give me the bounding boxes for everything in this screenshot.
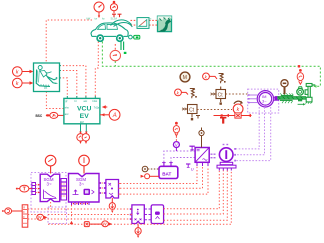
wire: slope to road stubs bbox=[149, 19, 158, 21]
blockA left port tabs bbox=[130, 208, 132, 220]
VCU EV block bbox=[64, 96, 100, 124]
gauge below car (wheel speed) bbox=[110, 50, 120, 60]
machine shaft flange purple bbox=[275, 96, 278, 100]
svg-text:VCU: VCU bbox=[77, 106, 91, 113]
wire: red dashed stubs car roof to slope block bbox=[131, 19, 138, 21]
svg-text:3~: 3~ bbox=[262, 98, 267, 103]
machine shaft stub bbox=[274, 97, 279, 100]
svg-text:SLSA: SLSA bbox=[111, 17, 118, 21]
blockA (transform) bbox=[132, 205, 144, 224]
stub pins between A and B bbox=[144, 209, 151, 220]
twin EM displays below VCU bbox=[81, 124, 87, 132]
dashed purple frame lower bbox=[48, 207, 67, 224]
multiplier x-block bbox=[235, 113, 241, 118]
multiplier block on bottom row bbox=[84, 222, 89, 227]
machine housing dashed box bbox=[248, 89, 279, 113]
wire: blockB rows to inverter pins bbox=[164, 171, 228, 221]
display above SGM2 (red gauge) bbox=[79, 155, 90, 173]
svg-text:TrQs: TrQs bbox=[94, 106, 100, 109]
inverter I block bbox=[217, 144, 236, 168]
bearing hatch below shaft bbox=[280, 100, 293, 103]
svg-text:lw: lw bbox=[102, 17, 105, 21]
wire: x-block right to machine bbox=[241, 114, 251, 117]
svg-text:BSC: BSC bbox=[36, 114, 43, 118]
wire: x-block left with arrowheads bbox=[214, 114, 235, 117]
wheel flange bars under rear axle bbox=[121, 42, 124, 51]
wire: Ct2 right brown dashed bbox=[197, 109, 232, 111]
blockB (controller) bbox=[151, 205, 163, 224]
wire: Ct1 to machine housing (brown dashed) bbox=[226, 93, 249, 95]
svg-text:kW: kW bbox=[87, 17, 91, 21]
A meter right of VCU bbox=[100, 109, 120, 120]
machine phase wires (purple dashed) bbox=[235, 107, 271, 161]
svg-text:k: k bbox=[16, 81, 19, 87]
svg-text:Ct: Ct bbox=[189, 107, 195, 113]
wire: SGM1 bottom stub bbox=[50, 202, 52, 209]
gear block right bbox=[305, 84, 315, 104]
junction red mark on green bus bbox=[298, 65, 300, 67]
spring 1 (brown zigzag) bbox=[219, 74, 226, 84]
wire: block3 rows to converter pins bbox=[120, 167, 208, 195]
inverter bottom pins bbox=[219, 168, 231, 171]
display above SGM1 (red gauge) bbox=[45, 155, 56, 173]
green connector box bbox=[134, 35, 140, 39]
svg-text:brtst: brtst bbox=[93, 100, 98, 103]
gauge display W2 (small) top bbox=[110, 1, 117, 14]
red arrow at VCU right port1 bbox=[102, 105, 106, 109]
constant k2 bbox=[12, 78, 33, 88]
converter bottom pins bbox=[197, 162, 208, 166]
dashed purple frame bbox=[31, 173, 66, 213]
red circle below blockA bbox=[135, 224, 141, 239]
wire: block3 right stubs bbox=[119, 184, 121, 195]
3~ cable strip between SGM1 and SGM2 bbox=[61, 179, 67, 201]
svg-text:Ct: Ct bbox=[218, 92, 224, 98]
machine circle M 3~ bbox=[257, 91, 273, 107]
wire: driver out3 to VCU top port1 bbox=[60, 78, 68, 97]
car front wheel bbox=[97, 35, 103, 41]
constant k3 (to clutch spring 1) bbox=[203, 73, 217, 80]
bearing platform above shaft bbox=[280, 93, 293, 95]
machine terminals left bbox=[248, 94, 257, 103]
terminal strip demux bbox=[22, 205, 28, 227]
small green tag near gauge bbox=[124, 52, 127, 54]
voltage display above V (red) bbox=[173, 122, 179, 142]
wire: strip rows to blockA bbox=[28, 209, 132, 219]
constant k4 (to clutch spring 2) bbox=[175, 89, 188, 96]
svg-text:EM: EM bbox=[80, 121, 84, 124]
junction arrow on bottom row bbox=[70, 221, 74, 224]
battery plus pin (brown circle) bbox=[142, 166, 159, 172]
block3 (sensor box) bbox=[106, 180, 119, 199]
svg-text:k: k bbox=[16, 70, 19, 76]
wire: car wheel speed down to VCU top port4 bbox=[95, 42, 98, 98]
translational connector circle after car bbox=[129, 35, 134, 39]
inertia gauge (brown) on shaft bbox=[281, 80, 288, 94]
green port labels above car bbox=[87, 17, 152, 21]
brown flange T on dashed line bbox=[196, 116, 200, 119]
red T mount symbol bbox=[220, 118, 226, 124]
svg-text:M: M bbox=[183, 75, 187, 81]
source ellipse into pin strip bbox=[16, 185, 32, 192]
W sensor on bottom row bbox=[89, 221, 112, 227]
link marks converter to inverter bbox=[211, 154, 216, 159]
wire: driver out1 to VCU top port3 bbox=[60, 66, 86, 97]
Ct2 bottom flange bbox=[191, 114, 193, 121]
svg-text:BAT: BAT bbox=[162, 172, 171, 177]
monitor M circle bbox=[180, 72, 190, 82]
svg-text:R: R bbox=[23, 206, 25, 210]
clutch block Ct1 bbox=[211, 87, 226, 105]
svg-text:tw: tw bbox=[95, 17, 98, 21]
ground U near converter bottom bbox=[186, 164, 194, 171]
BSC source ellipse bbox=[46, 112, 64, 118]
wire: bottom long row to inverter pin4 bbox=[48, 171, 231, 225]
arrowhead of green bus into gear bbox=[313, 85, 316, 88]
torque source symbols TT (red) bbox=[112, 14, 122, 17]
spring 2 (brown zigzag) bbox=[190, 89, 197, 99]
svg-text:A: A bbox=[112, 113, 117, 119]
svg-text:gf: gf bbox=[65, 100, 67, 103]
voltmeter V bbox=[173, 142, 179, 151]
slope block bbox=[137, 18, 149, 29]
driver block bbox=[34, 63, 60, 92]
gauge display W1 (speed) top bbox=[94, 2, 104, 18]
wire: SGM2 to block3 links bbox=[99, 183, 106, 193]
converter DC/AC bbox=[195, 148, 209, 163]
wire: driver bottom to VCU left port 1 bbox=[46, 92, 64, 109]
clutch block Ct2 bbox=[182, 105, 197, 114]
input circle bottom-left bbox=[2, 208, 22, 214]
wire: long green dashed vehicle bus to right side bbox=[102, 42, 320, 87]
cable curves from car roof to slope block bbox=[111, 20, 132, 26]
arrowheads into EM displays bbox=[79, 132, 81, 135]
W sensor circle near strip bbox=[37, 214, 48, 220]
input pin strip left of SGM1 bbox=[32, 183, 40, 195]
SGM2 motor block bbox=[69, 174, 100, 203]
svg-text:V: V bbox=[175, 143, 178, 148]
wire: driver out2 to VCU top port2 bbox=[60, 71, 77, 98]
constant k1 bbox=[12, 67, 33, 77]
svg-text:3~: 3~ bbox=[47, 182, 52, 187]
svg-text:βΔ: βΔ bbox=[44, 86, 47, 90]
car body bbox=[91, 23, 128, 37]
wire: gauge below car stubs bbox=[114, 44, 116, 50]
small green arrow below gear bbox=[298, 103, 306, 105]
converter top pin (brown + circle) bbox=[199, 128, 204, 148]
speed sensor (green) on shaft bbox=[297, 87, 304, 102]
SGM2 bottom pin row bbox=[72, 202, 90, 205]
capacitor/ground near converter bbox=[189, 146, 194, 151]
wire: red dashed feedback from car info to driver top bbox=[46, 20, 92, 63]
SGM1 generator block bbox=[40, 174, 60, 201]
speed source: brown arc + k circle bbox=[234, 101, 243, 104]
wire: SGM2 pin down to bottom row bbox=[71, 205, 73, 224]
svg-text:EV: EV bbox=[80, 113, 90, 120]
road block bbox=[158, 16, 172, 31]
car rear wheel bbox=[117, 35, 123, 41]
svg-text:3~: 3~ bbox=[79, 182, 84, 187]
wire: purple dashed DC bus top bbox=[164, 151, 195, 162]
speed display above speed sensor (red) bbox=[297, 69, 303, 84]
constant k5 bbox=[233, 104, 243, 114]
svg-text:br: br bbox=[75, 100, 77, 103]
shaft bbox=[276, 97, 306, 100]
red circle below block3 bbox=[109, 198, 115, 213]
svg-text:U: U bbox=[191, 166, 194, 171]
driver right port stubs bbox=[60, 66, 62, 78]
battery minus pin (red circle) bbox=[141, 174, 159, 179]
battery BAT bbox=[159, 163, 178, 179]
